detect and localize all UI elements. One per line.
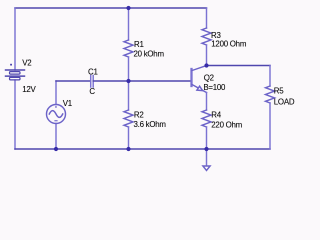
svg-text:R1: R1 [134, 40, 144, 49]
wire left rail upper (V2 top lead) [14, 8, 16, 70]
source V1 circle [47, 105, 66, 124]
svg-text:LOAD: LOAD [274, 98, 295, 107]
wire R2 bottom [128, 127, 130, 149]
svg-text:3.6 kOhm: 3.6 kOhm [134, 120, 167, 129]
battery V2 plus dot [10, 64, 12, 66]
wire R5 bottom [269, 103, 271, 149]
svg-text:C1: C1 [88, 68, 98, 77]
source V1 plus dot [55, 106, 57, 108]
svg-text:R2: R2 [134, 111, 144, 120]
svg-text:Q2: Q2 [204, 73, 214, 82]
wire top rail [15, 7, 207, 9]
resistor R2 [124, 110, 133, 127]
svg-text:V1: V1 [63, 99, 72, 108]
source V1 sine [49, 111, 62, 118]
wire ground stem [206, 149, 208, 166]
node ground junction [204, 147, 208, 151]
source V1 minus dash [54, 120, 57, 121]
svg-text:20 kOhm: 20 kOhm [134, 49, 165, 58]
battery V2 plate short bottom [10, 77, 21, 80]
resistor R1 [124, 40, 133, 57]
transistor Q2 collector [192, 66, 207, 71]
wire V1 bottom [55, 124, 57, 150]
svg-text:V2: V2 [22, 59, 31, 68]
wire bottom rail [15, 148, 270, 150]
transistor Q2 emitter arrow [197, 86, 203, 90]
wire R1 bottom [128, 57, 130, 81]
svg-text:R4: R4 [211, 111, 221, 120]
wire V1 top to C1 left [55, 81, 57, 105]
node V1 bottom junction [54, 147, 58, 151]
battery V2 plate long bottom [6, 75, 25, 77]
ground [203, 166, 210, 171]
transistor Q2 base bar [190, 69, 192, 86]
wire R5 top [269, 66, 271, 87]
node R1 top rail junction [126, 6, 130, 10]
svg-text:220 Ohm: 220 Ohm [211, 121, 242, 130]
node R2 bottom junction [126, 147, 130, 151]
node collector junction [204, 63, 208, 67]
resistor R3 [202, 28, 211, 45]
battery V2 plate long top [6, 69, 25, 71]
wire emitter to R4 [206, 93, 208, 111]
wire R2 branch top [128, 81, 130, 110]
battery V2 plate short top [10, 72, 21, 75]
wire R4 bottom [206, 127, 208, 149]
svg-text:B=100: B=100 [203, 83, 226, 92]
resistor R5 [266, 86, 275, 103]
wire R1 branch top [128, 8, 130, 40]
wire C1 left [56, 80, 91, 82]
svg-text:12V: 12V [22, 85, 36, 94]
capacitor C1 [91, 76, 94, 88]
svg-text:1200 Ohm: 1200 Ohm [211, 40, 247, 49]
svg-text:R5: R5 [274, 87, 284, 96]
wire C1 right to base [93, 80, 191, 82]
resistor R4 [202, 110, 211, 127]
wire left rail lower (V2 bottom lead) [14, 80, 16, 149]
transistor Q2 emitter [192, 85, 207, 93]
svg-text:C: C [89, 87, 95, 96]
wire R3 branch [206, 8, 208, 28]
wire collector node to R5 [207, 65, 271, 67]
node C1/R1/R2/base junction [126, 79, 130, 83]
wire R3 bottom [206, 45, 208, 66]
